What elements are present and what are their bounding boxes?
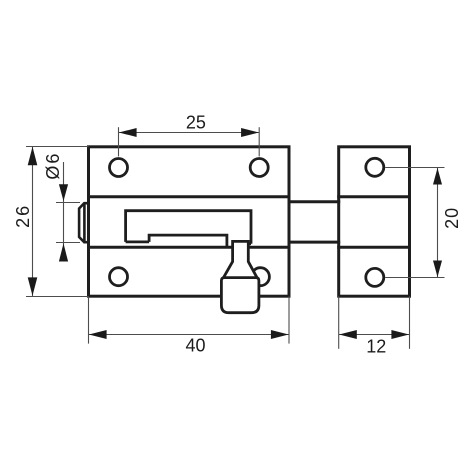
ext line 20 bottom bbox=[385, 277, 444, 279]
arrow 20 down bbox=[433, 261, 442, 278]
screw hole main top-right bbox=[250, 159, 268, 177]
ext line 25 left bbox=[118, 127, 120, 156]
dim line 40 bbox=[89, 334, 290, 336]
svg-text:25: 25 bbox=[186, 113, 206, 133]
svg-text:40: 40 bbox=[185, 335, 205, 355]
arrow 25 left bbox=[119, 128, 137, 137]
cutout bottom-right segment bbox=[248, 242, 251, 245]
screw hole keeper bottom bbox=[366, 268, 384, 286]
ext line 20 top bbox=[385, 167, 444, 169]
arrow 12 left bbox=[339, 330, 357, 339]
ext line 12 left bbox=[338, 296, 340, 349]
arrow 26 down bbox=[28, 277, 38, 295]
svg-text:20: 20 bbox=[442, 207, 462, 229]
screw hole main bottom-left bbox=[110, 268, 128, 286]
svg-text:Ø6: Ø6 bbox=[43, 152, 63, 180]
arrow 40 left bbox=[89, 330, 107, 339]
bolt end cap bbox=[79, 203, 88, 242]
arrow dia6 up bbox=[59, 243, 68, 261]
svg-text:12: 12 bbox=[366, 336, 386, 356]
bolt cap inner line bbox=[83, 203, 86, 242]
ext line 40 left bbox=[88, 296, 90, 343]
dim line 26 bbox=[32, 146, 34, 296]
screw hole main top-left bbox=[110, 159, 128, 177]
ext line 40 right bbox=[288, 296, 290, 343]
screw hole main bottom-right (partly hidden by knob) bbox=[251, 268, 269, 286]
knob stem and flare bbox=[224, 241, 258, 277]
ext line 26 top bbox=[26, 146, 89, 148]
knob ball bbox=[221, 278, 259, 313]
main plate divider bottom bbox=[89, 246, 290, 249]
keeper divider top bbox=[339, 195, 410, 198]
cutout bottom-left segment bbox=[126, 240, 150, 243]
bolt rod bottom edge bbox=[289, 241, 339, 244]
ext line 12 right bbox=[409, 296, 411, 349]
slide cutout bbox=[126, 211, 251, 247]
main plate outline bbox=[89, 147, 290, 296]
dim line 25 bbox=[119, 132, 260, 134]
arrow 20 up bbox=[433, 168, 442, 185]
arrow 25 right bbox=[241, 128, 259, 137]
screw hole keeper top bbox=[366, 158, 384, 176]
ext line dia6 top bbox=[56, 202, 80, 204]
arrow 40 right bbox=[271, 330, 289, 339]
arrow 26 up bbox=[28, 147, 38, 166]
ext line dia6 bottom bbox=[56, 242, 80, 244]
main plate divider top bbox=[89, 195, 290, 198]
arrow 12 right bbox=[391, 330, 409, 339]
ext line 25 right bbox=[258, 127, 260, 156]
ext line 26 bottom bbox=[26, 296, 89, 298]
bolt rod top edge bbox=[289, 200, 339, 203]
svg-text:26: 26 bbox=[13, 204, 33, 228]
dim line 20 bbox=[437, 168, 439, 278]
arrow dia6 down bbox=[59, 184, 68, 201]
dim line 12 bbox=[339, 334, 410, 336]
dim line dia6 bbox=[63, 162, 65, 262]
slide bar bbox=[149, 235, 227, 247]
keeper divider bottom bbox=[339, 246, 410, 249]
thin extension and dimension lines bbox=[26, 127, 445, 349]
keeper plate outline bbox=[339, 147, 410, 296]
